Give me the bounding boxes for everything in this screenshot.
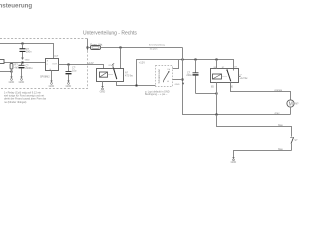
module boundary (dashed box, left control module) xyxy=(0,39,88,89)
capacitor C4 (electrolytic) xyxy=(193,60,199,94)
svg-text:ne (blinder riblogat): ne (blinder riblogat) xyxy=(4,100,26,104)
ground symbol below C2 xyxy=(19,77,25,84)
connector J1 at left edge xyxy=(0,60,4,64)
ground symbol below C3 xyxy=(66,81,72,89)
relay K2 coil xyxy=(213,74,222,79)
svg-text:+12V: +12V xyxy=(88,61,94,65)
svg-text:OUT: OUT xyxy=(52,63,57,65)
relay K2 box xyxy=(211,69,239,83)
node junction dot rail/C2 xyxy=(22,62,24,64)
svg-text:10u: 10u xyxy=(72,68,77,72)
svg-text:GND: GND xyxy=(66,85,72,88)
capacitor C2 (electrolytic) xyxy=(19,63,25,77)
wire supply rail y=43.5 with corner down to IC top pin xyxy=(0,44,54,59)
node junction dot lower bus xyxy=(216,114,218,116)
node junction dot at +12V feed xyxy=(136,85,138,87)
wire C4 bottom to K2 coil return xyxy=(196,93,217,95)
wire fuse feed vertical x=182.5 down to lower bus xyxy=(183,48,291,115)
wire module output pin to fuse vertical xyxy=(173,79,183,81)
wire relay K1 common down and right xyxy=(117,82,156,86)
ground symbol below K1 xyxy=(100,86,106,93)
wire K2 pin30 to motor top (orange) xyxy=(231,83,291,100)
svg-text:GND: GND xyxy=(25,59,30,61)
svg-text:GND: GND xyxy=(231,161,237,164)
wire C1 bottom lead xyxy=(22,52,24,58)
node junction dot on rail at C1 xyxy=(22,43,24,45)
svg-text:GND: GND xyxy=(9,81,15,84)
capacitor C1 plates xyxy=(20,48,26,52)
wire input rail y=62.5 to IC left pin xyxy=(0,62,46,64)
relay K1 coil xyxy=(100,72,108,77)
motor M xyxy=(287,100,299,108)
wire solid segment on module boundary xyxy=(87,39,89,51)
wire fuse output y=47.5 xyxy=(101,47,183,49)
svg-text:blau: blau xyxy=(278,148,283,151)
svg-text:Schaltmodul: Schaltmodul xyxy=(157,69,161,84)
resistor R1 xyxy=(10,63,13,77)
wire branch to switch (blau) xyxy=(217,115,292,137)
svg-text:+12V: +12V xyxy=(139,61,145,65)
svg-text:Unterverteilung - Rechts: Unterverteilung - Rechts xyxy=(83,31,137,37)
node junction dot coil return xyxy=(216,93,218,95)
svg-text:blau: blau xyxy=(278,124,283,127)
relay K1 coupling dashed link xyxy=(108,74,114,76)
svg-text:220u: 220u xyxy=(186,74,192,77)
module M1 internal switch symbol xyxy=(164,72,169,81)
wire module Ub pin up to +12V rail xyxy=(173,60,179,69)
wire K2 coil bottom pin 85 xyxy=(216,83,218,115)
svg-text:G: G xyxy=(49,69,51,71)
node junction dot K2 coil on rail xyxy=(216,59,218,61)
node junction dot C3 xyxy=(68,64,70,66)
voltage regulator U1 box xyxy=(46,59,59,72)
wire K2 coil top pin xyxy=(216,60,218,69)
svg-text:+12 9w: +12 9w xyxy=(240,77,248,80)
relay K2 contact stubs xyxy=(233,69,235,71)
ground symbol below R1 xyxy=(9,77,15,84)
wire relay K1 coil bottom to ground xyxy=(102,82,104,87)
wire C1 top lead xyxy=(22,44,24,49)
relay K1 NC stub above box xyxy=(109,63,115,68)
wire switch return to ground xyxy=(234,151,292,158)
svg-text:472 9w: 472 9w xyxy=(125,74,133,77)
wire U1 output rail y=64.5 to relay K1 coil xyxy=(59,65,104,69)
svg-text:IC?: IC? xyxy=(55,55,59,58)
svg-text:GND: GND xyxy=(100,90,106,93)
svg-text:orange: orange xyxy=(274,89,282,92)
relay K1 box xyxy=(97,67,124,81)
svg-text:nsteuerung: nsteuerung xyxy=(0,3,32,10)
svg-text:100n: 100n xyxy=(26,50,32,54)
wire +12V distribution: corner, rail y=59.5, corner down to K2 NO xyxy=(137,60,234,86)
module M1 dashed box xyxy=(156,66,173,87)
relay K1 switch lever xyxy=(113,67,117,79)
relay K2 right stub and label xyxy=(239,76,241,78)
node junction dot fuse tap xyxy=(87,47,89,49)
ground symbol below U1 xyxy=(49,81,55,89)
svg-text:2200u: 2200u xyxy=(25,66,33,70)
node junction dot module output xyxy=(182,79,184,81)
wire motor bottom to lower bus (grey) xyxy=(290,107,292,114)
wire down to relay K1 NO contact xyxy=(120,48,122,69)
relay K2 coupling dashed link xyxy=(222,76,227,78)
ground symbol bottom xyxy=(231,157,237,164)
svg-text:SP08M2: SP08M2 xyxy=(40,76,50,79)
switch S1 xyxy=(290,137,298,150)
svg-text:4k7: 4k7 xyxy=(14,65,19,69)
svg-text:GND: GND xyxy=(175,84,180,86)
svg-text:B. Drehzahlvorg.: B. Drehzahlvorg. xyxy=(149,43,166,46)
ground arrow marker on vertical xyxy=(182,83,184,85)
capacitor C3 (electrolytic) xyxy=(66,65,72,81)
node junction dot fuse vertical on rail xyxy=(182,59,184,61)
relay K2 switch lever xyxy=(227,70,231,82)
svg-text:Bedingung -- + pa --: Bedingung -- + pa -- xyxy=(145,93,167,96)
fuse F1 xyxy=(88,46,101,50)
wire lower lead-in y=71.5 xyxy=(0,71,12,73)
ground symbol below C1 xyxy=(21,58,30,62)
node junction dot K1 NO branch xyxy=(120,47,122,49)
svg-text:10 qmm: 10 qmm xyxy=(150,49,158,51)
node junction dot R1 bottom xyxy=(11,71,13,73)
wire U1 bottom pin xyxy=(51,71,53,81)
svg-text:M: M xyxy=(289,102,293,108)
svg-text:grey: grey xyxy=(275,112,281,115)
svg-text:GND: GND xyxy=(49,85,55,88)
svg-text:GND: GND xyxy=(19,81,25,84)
node junction dot C4 on rail xyxy=(195,59,197,61)
